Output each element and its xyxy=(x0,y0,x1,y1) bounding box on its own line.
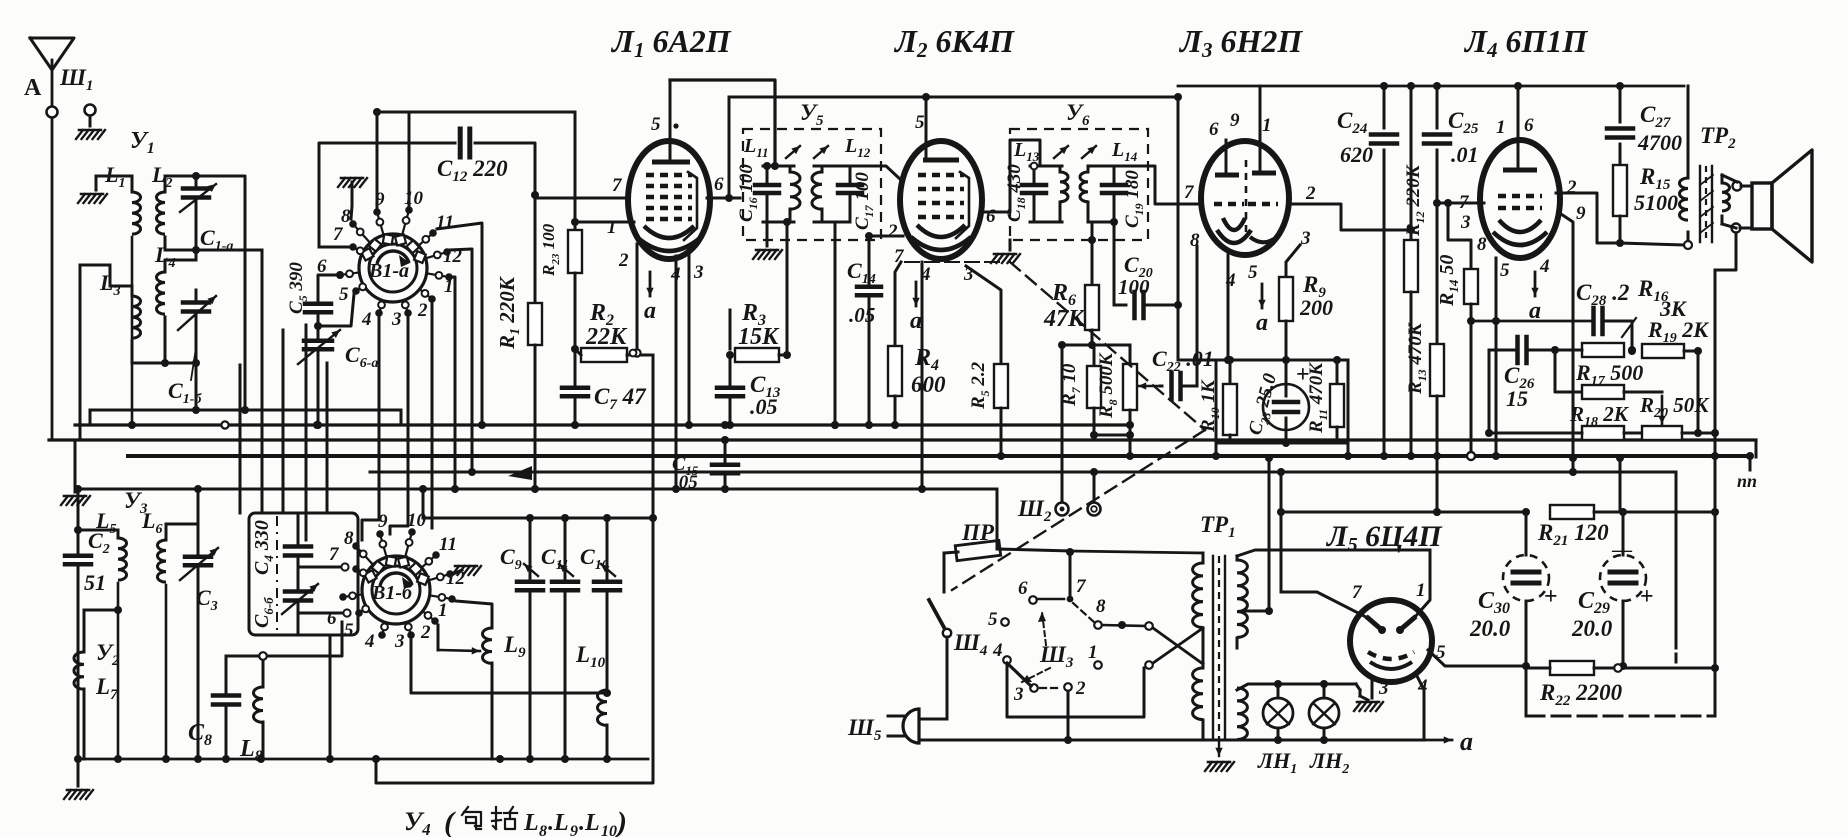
coil L11 xyxy=(743,135,800,222)
wire pin3 down xyxy=(685,250,693,429)
tube L3 pin4 xyxy=(1225,270,1236,291)
wire R2 left xyxy=(575,349,581,355)
TP1 secondary HT xyxy=(1237,556,1247,648)
wire xyxy=(1495,456,1498,458)
switch B1-a contact 11 xyxy=(419,212,454,246)
resistor R7 10 xyxy=(1059,363,1101,408)
capacitor C10 xyxy=(580,518,620,690)
resistor R4 600 xyxy=(888,262,946,429)
label U2 xyxy=(96,640,120,669)
svg-text:6: 6 xyxy=(327,608,337,629)
tube L1 pin6 xyxy=(714,174,724,195)
svg-text:2: 2 xyxy=(1305,183,1316,204)
capacitor C15 .05 xyxy=(672,436,738,493)
tube L1 pin4 xyxy=(670,264,681,285)
svg-text:5: 5 xyxy=(1500,260,1510,281)
capacitor C11 xyxy=(541,518,578,759)
wire 4 down xyxy=(1007,664,1144,717)
wire L3 bottom xyxy=(132,341,200,367)
wire R6 bottom xyxy=(1091,330,1094,345)
svg-text:8: 8 xyxy=(1096,596,1106,617)
switch B1-a contact 3 xyxy=(391,300,412,330)
wire U5 left top rail xyxy=(763,162,794,170)
svg-text:Л1 6А2П: Л1 6А2П xyxy=(610,23,732,62)
tube L2 cathode xyxy=(911,225,971,250)
switch B1-b contact 8 xyxy=(344,528,373,565)
wire C12 right xyxy=(475,143,535,195)
wire lower return xyxy=(376,518,653,783)
TP2 secondary xyxy=(1722,175,1730,224)
svg-text:8: 8 xyxy=(1477,234,1487,255)
variable capacitor C6-b xyxy=(282,584,318,632)
tube L1 grid xyxy=(646,184,692,189)
dash-dot link to switch xyxy=(952,430,1205,590)
svg-text:C18 430: C18 430 xyxy=(1004,164,1028,222)
tube L2 grid xyxy=(918,201,964,206)
svg-text:В1-б: В1-б xyxy=(371,582,413,604)
tube L4 6P1P xyxy=(1480,140,1560,258)
wire xyxy=(165,246,262,254)
tube L5 pin5 xyxy=(1436,642,1446,663)
svg-text:1: 1 xyxy=(1416,580,1426,601)
switch B1-b contact 12 xyxy=(429,568,466,589)
wire C22 to grid xyxy=(1196,246,1199,386)
resistor R14 50 xyxy=(1436,255,1478,307)
svg-text:R13 470К: R13 470К xyxy=(1405,322,1429,395)
ground U6 xyxy=(991,240,1020,263)
fuse PR xyxy=(944,520,1070,561)
wire L6 top xyxy=(166,485,202,524)
terminal Sh1 xyxy=(59,65,96,116)
wire bus H4 xyxy=(370,466,1676,480)
wire pin2 xyxy=(1288,204,1415,234)
svg-text:200: 200 xyxy=(1299,295,1333,320)
ground L1 xyxy=(78,194,107,203)
svg-text:+: + xyxy=(1640,584,1654,610)
wire L9 top xyxy=(456,601,492,620)
tube L3 grids xyxy=(1214,202,1278,207)
svg-text:R17 500: R17 500 xyxy=(1575,360,1643,389)
capacitor C22 .01 xyxy=(1152,346,1214,399)
switch Sh3 contact 8 xyxy=(1094,596,1106,629)
heater arrow a at rail xyxy=(1424,727,1473,756)
svg-text:15: 15 xyxy=(1506,386,1528,411)
switch Sh3 blade 4-3 xyxy=(1007,663,1031,686)
wire HT top out xyxy=(1237,550,1430,556)
electrolytic C23 25.0 xyxy=(1245,360,1310,443)
tube L1 6A2P title xyxy=(610,23,732,62)
tube L4 6P1P title xyxy=(1463,23,1588,62)
svg-text:7: 7 xyxy=(612,175,623,196)
wire lamp rail top xyxy=(1237,684,1356,690)
wire L7 xyxy=(84,606,122,759)
transformer TP2 xyxy=(1700,123,1736,152)
wire xyxy=(165,259,196,262)
dashed 7-8 xyxy=(1073,603,1094,622)
TP2 core xyxy=(1700,166,1713,242)
wire cathode rail xyxy=(1471,320,1591,323)
wire U6 right rails xyxy=(1088,166,1114,222)
wire riser xyxy=(239,365,242,513)
svg-text:620: 620 xyxy=(1340,142,1373,167)
tube L4 grids xyxy=(1498,196,1542,208)
wire riser xyxy=(282,330,285,513)
wire pin4 down xyxy=(672,256,680,493)
wire antenna down xyxy=(51,118,54,440)
node xyxy=(721,421,729,429)
svg-text:R21 120: R21 120 xyxy=(1537,520,1609,549)
wire grid to pin7 xyxy=(535,197,629,200)
tube L3 divider xyxy=(1245,160,1248,232)
capacitor C24 620 xyxy=(1337,82,1397,460)
wire ground bus H0 xyxy=(90,409,401,412)
svg-text:9: 9 xyxy=(1576,203,1586,224)
switch Sh3 contact 4 xyxy=(992,640,1011,664)
capacitor C28 .2 xyxy=(1576,280,1629,334)
svg-text:2: 2 xyxy=(420,622,431,643)
resistor R1 220K xyxy=(495,195,542,493)
svg-text:R22 2200: R22 2200 xyxy=(1539,680,1623,709)
label U1 xyxy=(130,128,155,157)
ground right of B1-b xyxy=(450,566,481,575)
switch B1-a contact 12 xyxy=(426,246,463,267)
tube L5 pin3 xyxy=(1378,678,1389,699)
svg-text:7: 7 xyxy=(1352,582,1363,603)
wire L4 bottom run xyxy=(164,317,167,340)
tube L3 pin9 xyxy=(1230,110,1240,131)
wire Sh4 down xyxy=(919,637,947,719)
tube L1 plate xyxy=(652,160,690,165)
tube L4 pin7 xyxy=(1459,192,1470,213)
coil L3 xyxy=(99,270,141,360)
switch B1-b contact 3 xyxy=(394,622,415,652)
antenna A xyxy=(30,38,74,108)
svg-text:9: 9 xyxy=(1230,110,1240,131)
tube L2 grid xyxy=(918,187,964,192)
resistor R23 100 xyxy=(539,207,582,349)
switch B1-a contact 10 xyxy=(402,188,423,235)
ground left bus xyxy=(61,440,90,505)
wire cathode down xyxy=(1492,258,1500,460)
tube L1 grid xyxy=(646,173,692,178)
switch B1-a contact 6 xyxy=(317,256,359,279)
wire xyxy=(164,330,167,363)
label U4 xyxy=(404,806,627,837)
speaker xyxy=(1740,150,1812,262)
switch B1-b contact 11 xyxy=(422,534,457,568)
wire pin6 xyxy=(981,140,1040,212)
svg-text:R1 220К: R1 220К xyxy=(495,275,523,350)
tube L1 6A2P xyxy=(628,141,710,259)
tube L5 pin4 xyxy=(1417,676,1428,697)
tube L4 plate xyxy=(1503,168,1537,173)
coil L14 xyxy=(1080,139,1138,222)
svg-text:R10 1К: R10 1К xyxy=(1198,379,1222,433)
rotary switch B1-a xyxy=(359,234,427,302)
label R16 pointer xyxy=(1622,318,1636,337)
wire VC feedback xyxy=(1715,233,1736,270)
box C6-b C4 xyxy=(249,513,358,635)
svg-text:5100: 5100 xyxy=(1634,190,1678,215)
svg-text:4: 4 xyxy=(992,640,1003,661)
capacitor C25 .01 xyxy=(1424,82,1479,203)
TP2 primary xyxy=(1620,86,1692,249)
wire pin2 down xyxy=(636,244,639,349)
wire c11 down xyxy=(437,223,486,429)
tube L1 pin5 xyxy=(651,80,679,162)
coil L1 xyxy=(104,162,141,425)
capacitor C9 xyxy=(500,518,543,759)
svg-text:C19 180: C19 180 xyxy=(1122,170,1146,228)
svg-text:51: 51 xyxy=(84,570,106,595)
coil L2 xyxy=(151,162,172,250)
tube L1 grid xyxy=(646,195,692,200)
svg-text:—: — xyxy=(1611,539,1633,561)
svg-text:A: A xyxy=(24,75,42,101)
switch B1-b contact 2 xyxy=(420,611,439,643)
svg-text:Л3 6Н2П: Л3 6Н2П xyxy=(1178,23,1303,62)
wire bus H5 xyxy=(78,488,997,491)
tube L4 cathode xyxy=(1493,220,1547,245)
wire ground bus H3 xyxy=(128,454,1750,458)
switch Sh3 contact 1 xyxy=(1088,642,1102,669)
wire L1 top to ground xyxy=(96,176,132,190)
svg-text:Л5 6Ц4П: Л5 6Ц4П xyxy=(1325,520,1443,556)
coil L10 xyxy=(575,642,611,759)
tube L5 6Ts4P title xyxy=(1325,520,1443,556)
wire top line xyxy=(1178,85,1684,88)
svg-text:5: 5 xyxy=(915,112,925,133)
node xyxy=(314,421,322,429)
resistor R2 22K xyxy=(581,300,628,362)
wire fuse to TP1 xyxy=(1066,548,1203,556)
capacitor C27 4700 xyxy=(1607,82,1682,165)
coil L9 xyxy=(482,620,526,759)
switch B1-a contact 7 xyxy=(333,224,364,254)
wire H4 drop xyxy=(1675,472,1678,666)
shield box U6 xyxy=(1010,100,1148,240)
trimmer arrow L14 xyxy=(1082,146,1096,158)
capacitor C2 51 xyxy=(65,528,110,759)
svg-text:8: 8 xyxy=(341,206,351,227)
wire L2 top xyxy=(165,172,249,414)
wire xyxy=(195,250,198,260)
tube L3 pin5 xyxy=(1248,262,1258,283)
svg-text:R8 500К: R8 500К xyxy=(1096,352,1120,419)
wire pin3 xyxy=(1286,245,1300,277)
resistor R20 50K xyxy=(1639,393,1710,440)
svg-text:L: L xyxy=(523,810,539,836)
tube L1 pin2 xyxy=(618,250,629,271)
ground bottom left xyxy=(64,755,93,799)
resistor R22 2200 xyxy=(1539,661,1623,709)
tube L2 pin6 xyxy=(986,206,996,227)
transformer TP1 label xyxy=(1200,512,1236,541)
node xyxy=(571,345,579,353)
wire c9 up xyxy=(373,108,381,207)
svg-text:a: a xyxy=(644,298,656,324)
wire L12 bottom down xyxy=(831,222,839,429)
wire lamp rail bottom xyxy=(1203,739,1424,742)
resistor R10 1K xyxy=(1198,360,1237,435)
wire X cross B xyxy=(1153,628,1203,663)
capacitor C16 100 xyxy=(736,164,779,222)
node xyxy=(831,421,839,429)
wire fuse left down xyxy=(943,553,946,592)
wire plate out xyxy=(1556,193,1620,243)
wire c8 to ground xyxy=(351,182,352,219)
switch Sh3 contact 3 xyxy=(1013,684,1038,705)
box contact 6 xyxy=(298,608,351,629)
rotary switch B1-b xyxy=(362,556,430,624)
wire rail left drop xyxy=(419,485,427,518)
capacitor C12 220 xyxy=(437,129,508,185)
tube L4 pins16 xyxy=(1496,82,1534,170)
tube L1 anode bracket xyxy=(684,172,697,240)
wire C1b bottom xyxy=(195,314,198,410)
ground above switch xyxy=(338,178,367,187)
tube L4 pin3 xyxy=(1460,212,1471,233)
svg-text:3: 3 xyxy=(1300,228,1311,249)
svg-text:7: 7 xyxy=(1076,576,1087,597)
wire X cross A xyxy=(1153,628,1203,664)
tube L2 pin7 xyxy=(894,246,905,267)
svg-text:1: 1 xyxy=(1496,117,1506,138)
wire R17 right to R20 wiper xyxy=(1624,392,1666,424)
svg-text:3: 3 xyxy=(1378,678,1389,699)
wire 8 right xyxy=(1102,621,1145,629)
trimmer arrow L11 xyxy=(786,146,800,158)
wire pin6 xyxy=(707,194,740,202)
wire C8 L8 top xyxy=(226,622,342,660)
wire xyxy=(400,410,403,425)
switch B1-a contact 9 xyxy=(373,189,385,235)
tube L2 grid xyxy=(918,215,964,220)
tube L4 pin4 xyxy=(1539,256,1550,277)
wire c2 down xyxy=(431,304,434,528)
tube L2 plate xyxy=(923,158,959,163)
svg-text:2: 2 xyxy=(887,221,898,242)
wire B+ row R21 xyxy=(1277,508,1530,516)
wire contact3 to L10 xyxy=(411,639,607,693)
variable capacitor C3 xyxy=(180,489,218,640)
svg-text:7: 7 xyxy=(1184,182,1195,203)
svg-text:6: 6 xyxy=(1209,119,1219,140)
wire L14 column down xyxy=(1110,218,1118,305)
switch Sh3 contact 7 xyxy=(1067,553,1087,602)
svg-text:22К: 22К xyxy=(585,324,628,350)
wire grid line xyxy=(1433,199,1484,207)
potentiometer R8 500K xyxy=(1096,352,1137,419)
capacitor C1-a xyxy=(180,176,233,254)
tube L2 pin3 xyxy=(963,264,974,285)
svg-text:6: 6 xyxy=(1524,115,1534,136)
speaker terminals xyxy=(1722,175,1742,233)
wire to Sh2 left xyxy=(1061,345,1064,502)
tube L1 pin3 xyxy=(693,262,704,283)
socket Sh2 xyxy=(1017,496,1101,525)
node xyxy=(1746,452,1754,460)
wire B1-b c2 to L9 xyxy=(438,625,480,654)
tube L3 pin8 xyxy=(1190,230,1200,251)
wire H5 to fuse xyxy=(996,489,999,549)
svg-text:4: 4 xyxy=(364,631,375,652)
svg-text:6: 6 xyxy=(1018,578,1028,599)
wire R9 bottom xyxy=(1282,321,1290,364)
svg-text:600: 600 xyxy=(911,372,946,397)
wire L5 top xyxy=(74,485,118,534)
wire pin5 out xyxy=(1428,650,1530,670)
capacitor C5 390 xyxy=(286,262,331,337)
svg-text:8: 8 xyxy=(344,528,354,549)
svg-text:R18 2К: R18 2К xyxy=(1569,402,1630,430)
svg-text:11: 11 xyxy=(439,534,457,555)
shield box U5 xyxy=(743,100,881,240)
capacitor C26 15 xyxy=(1504,337,1582,411)
wire U6 rails xyxy=(1030,163,1062,222)
tube L4 pin9 xyxy=(1576,203,1586,224)
svg-text:2: 2 xyxy=(1075,678,1086,699)
wire C26 row xyxy=(1489,346,1559,354)
wire L14 to T3 grid xyxy=(1114,166,1202,204)
label U3 xyxy=(124,488,148,517)
svg-text:9: 9 xyxy=(570,823,578,837)
wire 2 down xyxy=(1067,691,1070,740)
tube L2 grid xyxy=(918,173,964,178)
svg-text:5: 5 xyxy=(988,609,998,630)
tube L3 6N2P title xyxy=(1178,23,1303,62)
svg-text:a: a xyxy=(910,308,922,334)
svg-text:5: 5 xyxy=(339,284,349,305)
resistor R15 5100 xyxy=(1613,164,1678,247)
wire screen line xyxy=(729,93,1178,198)
wire xyxy=(1755,440,1758,457)
tube L2 6K4P xyxy=(900,141,982,259)
svg-text:3: 3 xyxy=(693,262,704,283)
capacitor C17 100 xyxy=(838,166,876,230)
plug Sh5 xyxy=(847,709,919,744)
svg-text:15К: 15К xyxy=(738,324,780,350)
svg-text:C17 100: C17 100 xyxy=(852,172,876,230)
svg-text:C12 220: C12 220 xyxy=(437,156,508,185)
svg-text:.01: .01 xyxy=(1451,142,1479,167)
capacitor C18 430 xyxy=(1004,164,1046,222)
svg-text:2: 2 xyxy=(1566,177,1577,198)
svg-text:20.0: 20.0 xyxy=(1469,616,1511,641)
wire U5 left bottom rail xyxy=(763,218,794,226)
junction xyxy=(630,350,637,357)
svg-text:10: 10 xyxy=(601,823,617,837)
svg-text:В1-а: В1-а xyxy=(368,260,409,282)
heater arrow a xyxy=(1529,272,1541,324)
ground text pp right xyxy=(1737,456,1757,491)
switch Sh3 label xyxy=(1039,642,1074,671)
coil L5osc xyxy=(95,508,127,759)
svg-text:3: 3 xyxy=(1460,212,1471,233)
wire R7 R8 bottoms xyxy=(1090,408,1134,439)
wire grid riser xyxy=(1448,203,1471,269)
svg-text:1: 1 xyxy=(444,276,454,297)
wire c4 down xyxy=(362,318,379,540)
wire L3 top xyxy=(80,265,132,440)
switch B1-b contact 1 xyxy=(430,594,456,621)
capacitor C7 47 xyxy=(562,349,647,429)
svg-text:3: 3 xyxy=(1013,684,1024,705)
svg-text:a: a xyxy=(1256,310,1268,336)
tube L2 anode bracket xyxy=(956,172,969,238)
wire pin7 riser xyxy=(1277,468,1285,592)
switch Sh3 contact X1 xyxy=(1145,622,1153,630)
